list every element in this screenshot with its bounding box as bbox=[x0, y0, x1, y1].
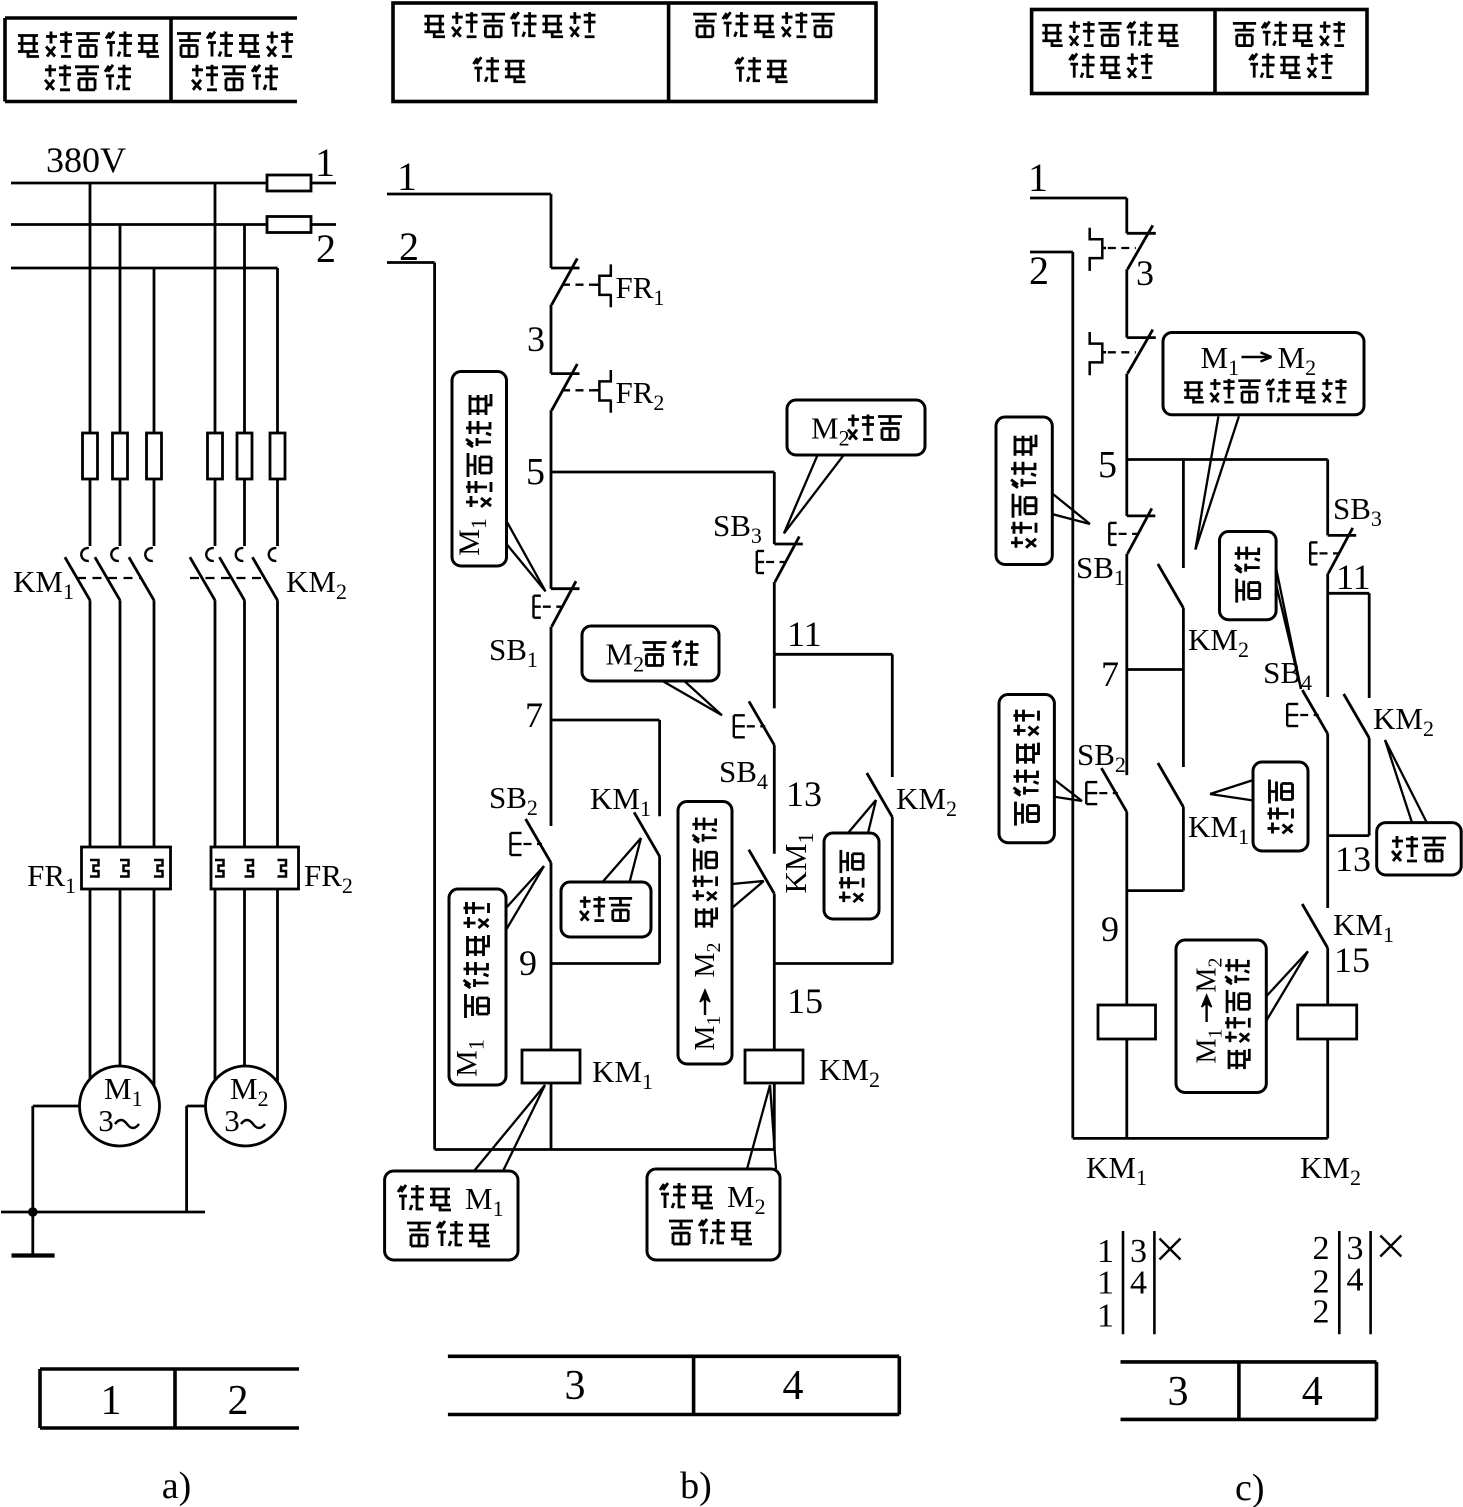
svg-text:2: 2 bbox=[1313, 1294, 1330, 1331]
svg-text:1: 1 bbox=[1028, 155, 1048, 200]
svg-text:5: 5 bbox=[526, 451, 545, 493]
svg-text:13: 13 bbox=[786, 774, 822, 814]
svg-text:2: 2 bbox=[316, 226, 336, 271]
svg-text:1: 1 bbox=[1097, 1265, 1114, 1302]
svg-text:3: 3 bbox=[98, 1103, 114, 1138]
svg-text:9: 9 bbox=[519, 943, 537, 983]
svg-text:7: 7 bbox=[1101, 654, 1119, 694]
svg-text:7: 7 bbox=[525, 695, 543, 735]
svg-text:4: 4 bbox=[1347, 1262, 1364, 1299]
svg-text:2: 2 bbox=[1313, 1230, 1330, 1267]
svg-text:4: 4 bbox=[1130, 1265, 1147, 1302]
svg-text:a): a) bbox=[162, 1465, 192, 1507]
svg-text:11: 11 bbox=[787, 614, 822, 654]
svg-text:c): c) bbox=[1235, 1467, 1265, 1507]
svg-text:11: 11 bbox=[1336, 557, 1371, 597]
svg-text:5: 5 bbox=[1098, 444, 1117, 486]
svg-text:4: 4 bbox=[783, 1363, 804, 1409]
svg-text:2: 2 bbox=[228, 1378, 249, 1424]
svg-text:3: 3 bbox=[565, 1363, 586, 1409]
svg-text:1: 1 bbox=[101, 1378, 122, 1424]
svg-text:3: 3 bbox=[527, 319, 545, 359]
svg-text:380V: 380V bbox=[46, 140, 126, 180]
svg-text:3: 3 bbox=[224, 1103, 240, 1138]
svg-text:13: 13 bbox=[1335, 839, 1371, 879]
svg-text:b): b) bbox=[680, 1465, 712, 1507]
svg-text:1: 1 bbox=[1097, 1297, 1114, 1334]
svg-text:15: 15 bbox=[787, 981, 823, 1021]
svg-text:3: 3 bbox=[1136, 253, 1154, 293]
svg-text:1: 1 bbox=[315, 140, 335, 185]
svg-text:3: 3 bbox=[1168, 1369, 1189, 1415]
svg-text:4: 4 bbox=[1302, 1369, 1323, 1415]
svg-text:2: 2 bbox=[1029, 248, 1049, 293]
svg-text:15: 15 bbox=[1334, 940, 1370, 980]
svg-text:1: 1 bbox=[397, 154, 417, 199]
svg-text:9: 9 bbox=[1101, 909, 1119, 949]
